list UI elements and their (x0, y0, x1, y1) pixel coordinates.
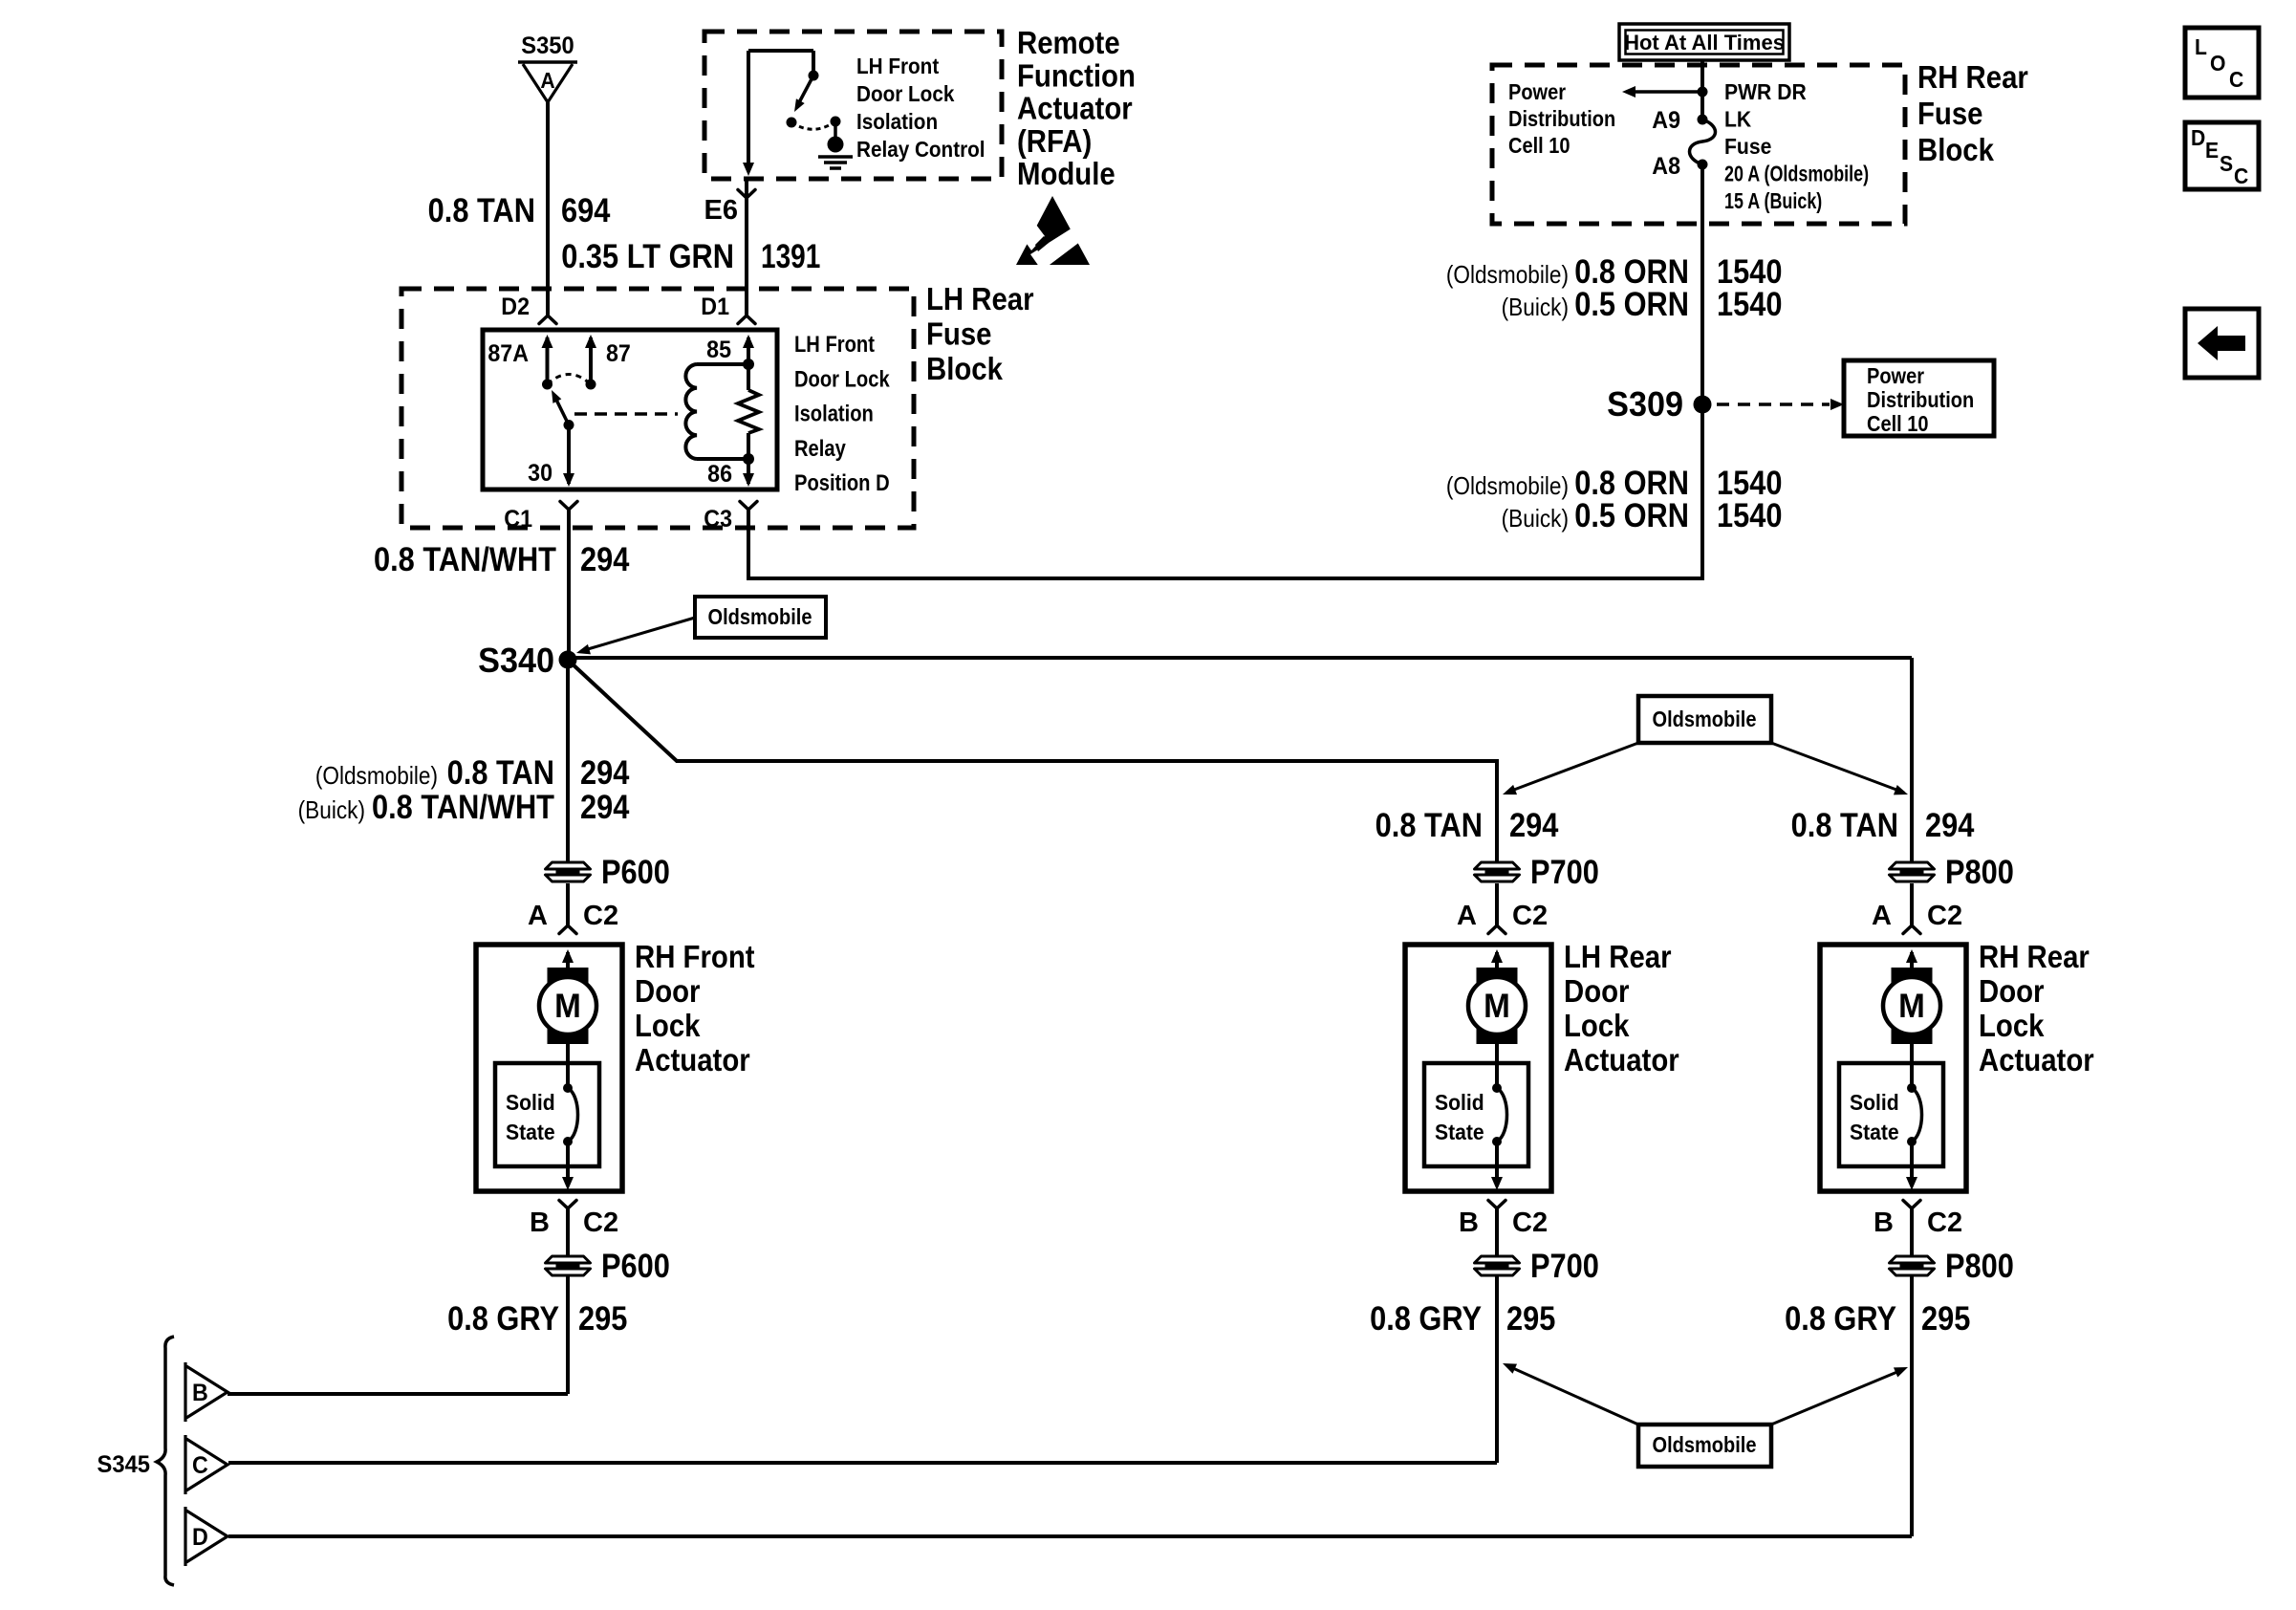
svg-text:B: B (530, 1207, 550, 1238)
svg-text:Module: Module (1017, 157, 1116, 192)
svg-text:C2: C2 (583, 901, 618, 931)
svg-text:Oldsmobile: Oldsmobile (708, 604, 812, 630)
svg-text:0.8 GRY: 0.8 GRY (1785, 1299, 1896, 1337)
svg-text:1391: 1391 (761, 237, 820, 275)
svg-text:0.5 ORN: 0.5 ORN (1574, 496, 1689, 533)
svg-text:Distribution: Distribution (1867, 387, 1974, 413)
svg-text:Door: Door (1564, 973, 1629, 1009)
svg-text:D2: D2 (501, 294, 530, 320)
svg-text:D: D (2191, 125, 2205, 150)
svg-text:Position D: Position D (794, 470, 890, 496)
svg-text:0.8 TAN: 0.8 TAN (1375, 806, 1483, 843)
svg-text:M: M (1898, 988, 1925, 1025)
svg-text:S350: S350 (521, 33, 574, 59)
svg-text:C2: C2 (1927, 901, 1962, 931)
svg-text:(Buick): (Buick) (1502, 294, 1569, 322)
svg-text:LH Front: LH Front (794, 331, 876, 357)
svg-text:Oldsmobile: Oldsmobile (1653, 1432, 1757, 1458)
svg-text:294: 294 (580, 788, 630, 825)
svg-text:P600: P600 (601, 1247, 670, 1284)
svg-text:Door: Door (1979, 973, 2044, 1009)
svg-text:Solid: Solid (1850, 1090, 1899, 1115)
svg-text:E6: E6 (704, 195, 738, 226)
svg-text:Oldsmobile: Oldsmobile (1653, 707, 1757, 732)
svg-text:A8: A8 (1652, 153, 1680, 180)
svg-text:C1: C1 (504, 506, 532, 533)
svg-text:A: A (1872, 901, 1892, 931)
svg-text:State: State (1850, 1120, 1899, 1144)
svg-text:(RFA): (RFA) (1017, 123, 1092, 159)
svg-text:Lock: Lock (635, 1008, 701, 1043)
svg-text:RH Front: RH Front (635, 939, 755, 974)
svg-text:Lock: Lock (1979, 1008, 2045, 1043)
svg-text:Function: Function (1017, 58, 1136, 94)
svg-text:85: 85 (706, 337, 731, 363)
svg-text:PWR DR: PWR DR (1724, 79, 1807, 104)
svg-text:Door Lock: Door Lock (794, 366, 890, 392)
svg-text:Hot At All Times: Hot At All Times (1624, 31, 1785, 54)
svg-text:A9: A9 (1652, 107, 1680, 134)
svg-text:Door Lock: Door Lock (856, 81, 955, 106)
svg-text:D: D (192, 1524, 208, 1551)
svg-text:D1: D1 (701, 294, 729, 320)
svg-text:(Oldsmobile): (Oldsmobile) (1446, 473, 1569, 501)
svg-text:P700: P700 (1530, 1247, 1599, 1284)
svg-text:C2: C2 (1512, 901, 1548, 931)
svg-text:L: L (2195, 34, 2207, 59)
svg-text:Isolation: Isolation (856, 109, 938, 134)
svg-text:A: A (528, 901, 548, 931)
svg-text:M: M (1484, 988, 1510, 1025)
svg-text:Remote: Remote (1017, 25, 1120, 60)
svg-text:Solid: Solid (1435, 1090, 1484, 1115)
svg-text:Actuator: Actuator (1564, 1042, 1679, 1077)
svg-text:A: A (540, 68, 554, 93)
svg-text:Fuse: Fuse (1917, 96, 1983, 131)
svg-text:Block: Block (1917, 132, 1995, 167)
svg-text:Relay: Relay (794, 435, 846, 461)
svg-text:Power: Power (1867, 363, 1925, 389)
svg-text:(Oldsmobile): (Oldsmobile) (315, 763, 438, 791)
svg-text:0.8 TAN: 0.8 TAN (428, 191, 535, 228)
svg-text:Distribution: Distribution (1508, 106, 1615, 132)
svg-text:RH Rear: RH Rear (1917, 59, 2028, 95)
svg-text:LH Rear: LH Rear (926, 281, 1034, 316)
svg-text:(Buick): (Buick) (298, 797, 365, 825)
svg-text:S309: S309 (1607, 385, 1683, 424)
svg-text:E: E (2205, 138, 2219, 163)
svg-text:86: 86 (707, 461, 732, 488)
svg-text:(Oldsmobile): (Oldsmobile) (1446, 262, 1569, 290)
svg-text:0.8 GRY: 0.8 GRY (447, 1299, 559, 1337)
svg-text:B: B (192, 1380, 208, 1406)
svg-text:1540: 1540 (1717, 496, 1782, 533)
svg-text:State: State (1435, 1120, 1484, 1144)
svg-text:Actuator: Actuator (635, 1042, 750, 1077)
svg-text:C2: C2 (1927, 1207, 1962, 1238)
svg-text:C2: C2 (583, 1207, 618, 1238)
svg-text:C: C (2234, 163, 2248, 188)
svg-text:20 A (Oldsmobile): 20 A (Oldsmobile) (1724, 162, 1869, 186)
svg-text:15 A (Buick): 15 A (Buick) (1724, 189, 1822, 214)
svg-text:(Buick): (Buick) (1502, 506, 1569, 533)
svg-text:Fuse: Fuse (1724, 134, 1771, 159)
svg-text:C: C (2229, 67, 2243, 92)
svg-text:LK: LK (1724, 107, 1751, 132)
svg-text:0.5 ORN: 0.5 ORN (1574, 285, 1689, 322)
svg-text:B: B (1459, 1207, 1479, 1238)
svg-text:Cell 10: Cell 10 (1508, 133, 1570, 159)
svg-text:Fuse: Fuse (926, 316, 992, 352)
svg-text:Relay Control: Relay Control (856, 137, 986, 162)
svg-text:294: 294 (1509, 806, 1559, 843)
svg-text:Power: Power (1508, 79, 1567, 105)
svg-text:295: 295 (1506, 1299, 1555, 1337)
svg-text:87A: 87A (487, 340, 529, 367)
svg-text:M: M (554, 988, 581, 1025)
svg-text:P800: P800 (1945, 1247, 2014, 1284)
svg-text:294: 294 (1925, 806, 1975, 843)
svg-text:LH Front: LH Front (856, 54, 940, 78)
svg-text:O: O (2210, 51, 2225, 76)
svg-text:RH Rear: RH Rear (1979, 939, 2090, 974)
svg-text:Block: Block (926, 351, 1004, 386)
svg-text:Solid: Solid (506, 1090, 555, 1115)
svg-text:295: 295 (578, 1299, 627, 1337)
svg-text:0.8 TAN/WHT: 0.8 TAN/WHT (372, 788, 554, 825)
svg-text:Actuator: Actuator (1979, 1042, 2094, 1077)
svg-text:Door: Door (635, 973, 700, 1009)
svg-text:1540: 1540 (1717, 285, 1782, 322)
svg-text:C3: C3 (704, 506, 732, 533)
svg-text:C: C (192, 1452, 208, 1479)
svg-text:0.8 TAN: 0.8 TAN (447, 753, 554, 791)
svg-text:State: State (506, 1120, 555, 1144)
svg-text:294: 294 (580, 540, 630, 577)
svg-text:S345: S345 (97, 1451, 150, 1478)
svg-text:295: 295 (1921, 1299, 1970, 1337)
svg-text:694: 694 (561, 191, 611, 228)
svg-text:P600: P600 (601, 853, 670, 890)
svg-text:0.35 LT GRN: 0.35 LT GRN (561, 237, 734, 274)
svg-text:A: A (1457, 901, 1477, 931)
svg-text:S: S (2220, 151, 2233, 176)
svg-text:Isolation: Isolation (794, 401, 874, 426)
svg-text:0.8 GRY: 0.8 GRY (1370, 1299, 1482, 1337)
svg-text:0.8 TAN: 0.8 TAN (1791, 806, 1898, 843)
svg-text:Lock: Lock (1564, 1008, 1630, 1043)
svg-text:Cell 10: Cell 10 (1867, 411, 1929, 437)
svg-text:294: 294 (580, 753, 630, 791)
svg-text:LH Rear: LH Rear (1564, 939, 1672, 974)
svg-text:P700: P700 (1530, 853, 1599, 890)
svg-text:P800: P800 (1945, 853, 2014, 890)
svg-text:C2: C2 (1512, 1207, 1548, 1238)
svg-text:0.8 TAN/WHT: 0.8 TAN/WHT (374, 540, 556, 577)
svg-text:87: 87 (606, 340, 631, 367)
svg-text:B: B (1874, 1207, 1894, 1238)
svg-text:30: 30 (528, 460, 552, 487)
svg-text:Actuator: Actuator (1017, 91, 1133, 126)
svg-text:S340: S340 (478, 642, 554, 680)
